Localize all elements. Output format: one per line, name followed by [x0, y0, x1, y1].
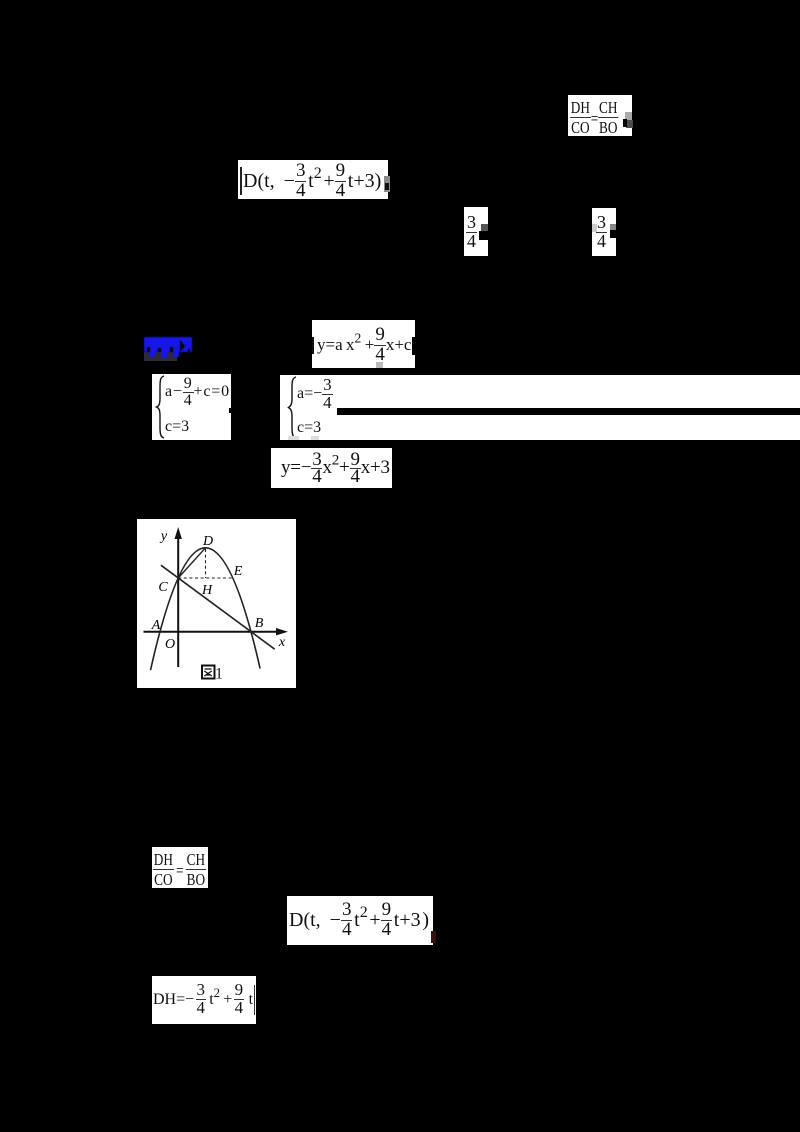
segment C to D [178, 548, 205, 578]
x-axis [144, 631, 281, 633]
system box 5: {a-9/4+c=0 ; c=3 [152, 374, 231, 440]
gray handle on box 1 [625, 112, 632, 120]
y-axis [177, 535, 179, 667]
svg-text:D: D [202, 534, 213, 549]
equation box 4: y=a x^2 + 9/4 x + c [312, 320, 415, 368]
cursor at right of box 4 [412, 337, 416, 355]
svg-text:B: B [255, 616, 264, 631]
equation box 7: y=-3/4x^2+9/4x+3 [271, 448, 392, 488]
line through C and B [161, 565, 275, 649]
comma after box 2 [384, 176, 390, 192]
svg-text:H: H [201, 583, 213, 598]
black handle right of box 5 [229, 408, 233, 413]
equation box 10: DH=-3/4 t^2 + 9/4 t [152, 976, 256, 1024]
figure: coordinate graph 图1 [137, 519, 296, 688]
comma after box 9 [431, 931, 436, 943]
handles on box 3b [592, 224, 597, 232]
dashed segment C to E [178, 577, 233, 579]
system box 6: {a=-3/4 ; c=3 (white strip to right edge) [280, 375, 800, 440]
svg-text:A: A [151, 618, 161, 633]
gray bottom marks box 6 [288, 436, 299, 440]
blue label (CJK text, drawn as SVG blob) [144, 335, 196, 363]
gray mark bottom of box 4 [376, 362, 383, 368]
equation box 1: DH/CO = CH/BO (top right) [568, 95, 632, 136]
y-axis arrowhead [175, 527, 182, 539]
dashed segment D to H [205, 549, 207, 578]
dark handle + comma on box 1 [626, 120, 633, 128]
equation box 8: DH/CO = CH/BO (lower) [152, 847, 208, 888]
svg-text:x: x [278, 635, 286, 650]
svg-text:C: C [158, 580, 168, 595]
svg-text:1: 1 [215, 666, 223, 683]
equation box 9: D(t, -3/4 t^2 + 9/4 t + 3) (lower) [287, 896, 433, 945]
svg-text:E: E [233, 564, 243, 579]
handles on box 3a [481, 224, 488, 232]
caption 图 glyph (drawn) [202, 666, 215, 679]
equation box 2: D(t, -3/4 t^2 + 9/4 t + 3) [238, 160, 388, 199]
x-axis arrowhead [276, 628, 288, 635]
parabola through A, C, D(vertex), E, B [151, 548, 261, 670]
fraction box 3b: 3/4 [592, 208, 616, 256]
svg-text:y: y [159, 529, 168, 544]
fraction box 3a: 3/4 [464, 207, 488, 256]
svg-text:O: O [165, 637, 175, 652]
black bar across box 6 [337, 408, 800, 415]
